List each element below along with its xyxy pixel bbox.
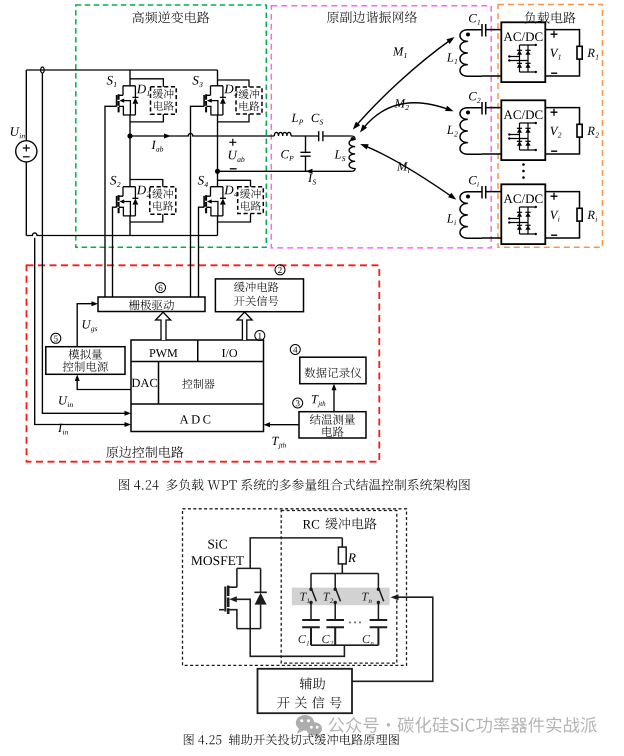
wire Iab output (hop over S3 gate line) [130,133,274,138]
wire gate S4 to driver [199,207,205,297]
label Tjth upper [312,395,326,407]
polarity dot LS [351,137,355,141]
feedback arrow aux to switches [352,594,433,681]
label + Uab - [229,139,245,169]
capacitor CP [300,136,310,171]
wire left bridge leg [129,70,131,236]
circled 2 [275,265,285,275]
hollow arrow I/O to switch signal [237,312,252,340]
label L1 [447,53,457,64]
snubber box of S2 缓冲电路 [130,180,176,223]
circled 4 [290,345,300,355]
mutual inductance arrow M2 [360,103,454,133]
label L2 [447,126,458,137]
circled 5 [51,333,61,343]
AC/DC converter box [501,22,545,82]
snubber switch signal box 缓冲电路开关信号 [215,279,303,312]
label T2 [324,593,334,603]
wire Tjth to ADC [264,422,300,427]
caption figure 4.24 [119,479,470,491]
wire LP to CS [291,135,319,137]
caption figure 4.25 [184,734,399,745]
capacitor C2 [482,102,501,115]
transistor S2 [117,187,139,216]
controller box PWM/IO/DAC/controller/ADC [131,340,264,432]
tap oval on top rail [41,67,45,73]
switch T1 [309,574,316,621]
label C1 (snubber) [299,635,309,645]
wire coil bottom to AC/DC [482,237,501,239]
ellipsis dots between load rows [522,163,525,179]
wire Tjth to data recorder [332,384,337,412]
wire gate S2 to driver [113,207,117,297]
wire bottom rail (hop at x=34.7) [26,233,217,236]
label S3 [193,76,203,87]
secondary coil L2 [460,108,482,155]
label Ri [587,211,597,222]
wire Uin sense to ADC [42,73,131,416]
ellipsis dots between C2 and Cn [349,621,361,623]
label Ugs [83,320,98,332]
label Iin sense [58,424,68,435]
capacitor Ci [482,186,501,199]
rectifier bridge glyph [508,206,537,235]
wire right bridge leg [217,70,219,236]
hollow arrow PWM to gate driver [156,312,171,340]
label Ci [469,176,479,187]
polarity dot L2 [466,111,470,115]
label CP [281,150,293,161]
inductor LP [274,132,291,136]
fig4.25 outer dashed box [183,509,407,666]
label Tn [362,593,371,603]
label D4 [224,186,237,197]
label Uin [11,127,25,138]
label R2 [587,127,599,138]
label Uin sense [59,396,73,407]
label C2 (snubber) [322,635,333,645]
label LP [291,114,303,125]
fig4.25 inner dashed box RC snubber [281,511,397,664]
label M1 [393,47,407,58]
wire coil bottom to AC/DC [482,75,501,77]
rectifier bridge glyph [508,44,537,73]
load resistor R2 [545,108,582,154]
voltage source Uin [16,141,37,162]
resistor R [338,538,346,574]
mutual inductance arrow M1 [353,37,455,130]
data recorder box 数据记录仪 [300,357,366,384]
label SiC MOSFET [191,540,244,566]
wire Iin sense to ADC [35,238,131,427]
load resistor Ri [545,192,582,238]
wire coil bottom to AC/DC [482,153,501,155]
label D1 [137,85,150,96]
wire node B to resonant bottom [218,170,352,172]
load region box 负载电路 [498,5,603,248]
label RC 缓冲电路 [303,518,377,530]
label +V- [551,31,561,73]
watermark icon chat bubbles [296,715,322,738]
circled 3 [293,398,303,408]
label Cn (snubber) [363,635,374,645]
wire source to rails [25,70,27,236]
wire gate S1 to driver [105,106,117,297]
inverter region box 高频逆变电路 [76,5,266,247]
label S2 [110,176,120,187]
label CS [312,114,324,125]
secondary coil L1 [460,30,482,77]
node A (bridge midpoint left) [127,133,132,138]
mutual inductance arrow Mi [360,144,456,200]
AC/DC converter box [501,100,545,160]
capacitor C1 (snubber) [302,620,320,645]
label C2 [469,92,481,103]
snubber box of S1 缓冲电路 [130,79,176,122]
rectifier bridge glyph [508,122,537,151]
circled 1 [255,331,265,341]
capacitor CS [319,131,352,141]
wire Ugs analog power to gate driver [77,301,98,347]
wire top rail [26,69,217,71]
capacitor Cn (snubber) [370,620,388,645]
label Li [447,214,456,225]
label D3 [224,85,237,96]
label +V- [551,109,562,152]
capacitor C1 [482,24,501,37]
switch T2 [334,574,341,621]
load resistor R1 [545,30,582,76]
junction temp box 结温测量电路 [299,412,366,438]
label D2 [137,186,150,197]
wire SiC MOSFET drain to R [250,538,342,569]
snubber box of S3 缓冲电路 [218,80,263,122]
switch Tn [377,574,384,621]
analog control power box 模拟量控制电源 [46,347,125,375]
snubber box of S4 缓冲电路 [218,180,264,222]
gray highlight band [292,588,390,606]
gate driver box 栅极驱动 [98,297,205,312]
transistor S3 [204,86,226,115]
watermark text [328,717,596,733]
secondary coil Li [460,192,482,239]
label Tjth lower [272,437,286,449]
node B (bridge midpoint right) [215,169,220,174]
polarity dot L1 [466,33,470,37]
AC/DC converter box [501,184,545,244]
label Iab [152,141,164,152]
wire SiC MOSFET source to bottom bus [250,629,344,657]
label R [348,554,356,563]
inductor LS [349,136,355,171]
top branch bus [311,573,379,575]
label S4 [198,176,208,187]
SiC MOSFET symbol [219,568,267,628]
polarity dot Li [466,195,470,199]
label C1 [469,14,480,25]
label M2 [395,99,409,110]
label IS + arrow [306,169,317,185]
label S1 [107,76,117,87]
transistor S1 [117,86,139,115]
transistor S4 [204,187,226,216]
label T1 [300,593,309,603]
wire DAC to analog power [75,375,131,390]
label Mi [397,162,410,173]
wire gate S3 to driver [191,106,205,297]
auxiliary switch signal box 辅助开关信号 [258,669,353,713]
label R1 [587,49,598,60]
label LS [334,150,345,161]
bottom bus fig4.25 [311,644,378,646]
label +V- [551,193,560,236]
resonant network region box 原副边谐振网络 [271,6,491,248]
capacitor C2 (snubber) [326,620,344,645]
circled 6 [156,283,166,293]
primary control region box 原边控制电路 [27,265,380,461]
